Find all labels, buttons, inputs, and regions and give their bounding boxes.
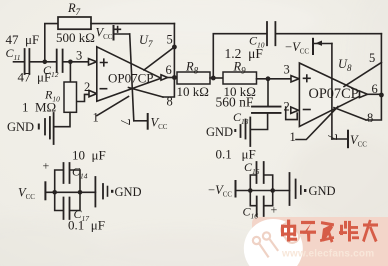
node junction dot C13 tap <box>266 76 271 81</box>
node dots bypass right <box>248 188 253 193</box>
svg-text:www.elecfans.com: www.elecfans.com <box>281 249 374 260</box>
capacitor C17 loop bottom <box>55 192 80 210</box>
pin 5 diagonal U8 <box>344 63 381 87</box>
svg-text:0.1 μF: 0.1 μF <box>68 218 105 233</box>
watermark url text <box>281 249 374 260</box>
svg-text:3: 3 <box>76 49 82 63</box>
svg-text:7: 7 <box>325 134 340 141</box>
svg-text:+: + <box>271 203 278 217</box>
watermark logo circle with paw <box>244 219 303 266</box>
pin 3 input arrow U8 <box>291 76 299 82</box>
Vcc+ terminal bar U7 <box>113 26 115 40</box>
svg-text:8: 8 <box>367 111 373 125</box>
wire: C10 to right corner <box>276 33 381 35</box>
svg-text:GND: GND <box>115 185 142 199</box>
capacitor C15 plates <box>257 162 264 183</box>
ground GND bypass right <box>289 173 291 205</box>
feedback wire top run <box>91 23 174 25</box>
watermark text 电子发烧友 <box>281 220 378 243</box>
watermark pink patch <box>252 217 388 266</box>
svg-text:1.2 μF: 1.2 μF <box>225 46 264 61</box>
output arrow U8 <box>360 91 368 98</box>
Vcc- terminal bar U8 <box>312 39 314 54</box>
pin 2 input arrow U7 <box>89 90 97 96</box>
svg-text:1: 1 <box>93 111 99 125</box>
capacitor C10 plates <box>267 22 275 45</box>
Vcc terminal bar bottom U7 <box>147 114 149 129</box>
svg-text:2: 2 <box>284 100 290 114</box>
svg-text:OP07CP: OP07CP <box>108 70 154 85</box>
resistor R9 box <box>223 72 257 84</box>
svg-text:47 μF: 47 μF <box>6 32 40 47</box>
svg-text:500 kΩ: 500 kΩ <box>56 30 95 45</box>
capacitor C16 loop bottom <box>250 191 272 206</box>
wire: C13 drop <box>267 79 269 106</box>
pin 5 diagonal U7 <box>144 47 174 70</box>
pin 1 diagonal U8 <box>296 107 338 140</box>
svg-text:10 kΩ: 10 kΩ <box>177 84 209 99</box>
wire: pin2 link from R10 <box>77 94 90 101</box>
wire: stage2 feedback right riser <box>366 34 381 120</box>
feedback wire left riser <box>45 24 58 62</box>
node A junction dot (feedback tap) <box>43 60 48 65</box>
pin 8 diagonal U7 <box>129 88 164 98</box>
plus mark top U7 <box>115 27 121 33</box>
capacitor C16 plates <box>257 197 264 217</box>
svg-text:3: 3 <box>284 63 290 77</box>
wire: pin2 loop U8 <box>286 107 298 120</box>
wire: C12 to op-amp pin3 <box>63 61 88 63</box>
small arrow mark top U8 <box>316 41 323 46</box>
ground input GND symbol <box>44 119 46 135</box>
wire: Vcc- bottom U7 <box>134 120 148 122</box>
Vcc terminal bar bottom U8 <box>347 131 349 148</box>
pin 2 input arrow U8 <box>291 107 299 113</box>
resistor R7 box <box>58 17 91 29</box>
svg-text:OP07CP: OP07CP <box>309 86 359 102</box>
capacitor C13 plates horizontal <box>252 107 281 113</box>
op-amp U8 minus sign <box>304 109 311 111</box>
ground GND C13 symbol <box>240 125 242 137</box>
wire: input line left <box>14 61 24 63</box>
capacitor C11 plates <box>25 49 30 74</box>
op-amp U7 triangle <box>97 47 161 101</box>
wire: C11 to C12 <box>30 61 56 63</box>
svg-text:560 nF: 560 nF <box>216 95 254 110</box>
pin7/pin4 vertical U7 <box>130 34 134 121</box>
wire: bypass left main <box>45 191 95 193</box>
wire: R9 to op-amp pin3 <box>257 78 291 80</box>
op-amp U7 minus sign <box>100 88 106 90</box>
op-amp U7 plus sign <box>101 59 108 66</box>
svg-text:5: 5 <box>369 51 375 65</box>
pin 3 input arrow U7 <box>89 59 97 65</box>
svg-text:10 μF: 10 μF <box>72 148 106 163</box>
svg-text:GND: GND <box>206 125 233 139</box>
wire: output U8 to junction <box>368 93 382 95</box>
wire: R10 riser top <box>69 62 71 82</box>
svg-text:8: 8 <box>167 95 173 109</box>
wire: R8 to R9 <box>210 77 223 79</box>
pin7/pin4 vertical U8 <box>331 44 333 140</box>
bypass cluster right: Vcc- terminal bar <box>235 181 237 197</box>
wire: Vcc+ top U7 <box>114 33 130 35</box>
node output junction dot U7 <box>172 75 177 80</box>
capacitor C17 plates <box>64 198 70 220</box>
pin 1 diagonal U7 <box>97 97 129 116</box>
resistor R8 box <box>177 72 210 84</box>
capacitor C14 plates <box>64 163 70 183</box>
capacitor C15 loop top <box>250 175 272 191</box>
wire: C13 bottom to GND <box>252 114 268 130</box>
ground GND bypass left <box>94 177 96 207</box>
wire: bypass right main <box>236 190 290 192</box>
node junction dot R8-R9 <box>211 76 216 81</box>
capacitor C12 plates <box>57 50 63 73</box>
node B junction dot (R10 tap) <box>68 60 73 65</box>
wire: output to R8 <box>168 77 178 79</box>
pin 8 diagonal U8 <box>334 108 366 120</box>
svg-text:1: 1 <box>290 130 296 144</box>
node pin5 junction dot <box>172 45 177 50</box>
svg-text:6: 6 <box>372 82 378 96</box>
wire: stage2 feedback left riser <box>213 34 266 78</box>
svg-text:7: 7 <box>118 119 133 126</box>
svg-text:6: 6 <box>166 63 172 77</box>
svg-text:GND: GND <box>309 184 336 198</box>
op-amp U8 plus sign <box>304 75 311 82</box>
wire: Vcc- top U8 <box>313 43 332 45</box>
resistor R10 box <box>64 82 77 112</box>
bypass cluster left: Vcc terminal bar <box>44 182 46 199</box>
op-amp U8 triangle <box>299 63 364 127</box>
svg-text:5: 5 <box>167 33 173 47</box>
svg-text:1 MΩ: 1 MΩ <box>22 100 56 115</box>
output arrow U7 <box>161 75 168 80</box>
wire: Vcc bottom U8 <box>332 138 348 140</box>
node output junction dot U8 <box>379 93 384 98</box>
svg-text:GND: GND <box>7 120 34 134</box>
svg-text:+: + <box>43 159 50 173</box>
node dots bypass left <box>52 190 57 195</box>
wire: R10 bottom to GND <box>54 112 70 126</box>
feedback wire right riser <box>163 24 174 98</box>
svg-text:2: 2 <box>84 80 90 94</box>
capacitor C14 loop top <box>55 170 80 192</box>
